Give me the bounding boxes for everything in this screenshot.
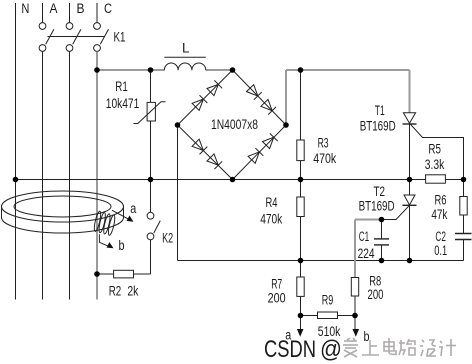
- svg-text:b: b: [119, 238, 125, 253]
- diode D6: [207, 154, 218, 165]
- transformer toroid: [2, 191, 124, 222]
- svg-text:K1: K1: [114, 30, 126, 45]
- resistor R1 varistor: [150, 70, 152, 102]
- diode D4: [261, 99, 272, 110]
- wire C phase (gray): [96, 52, 233, 300]
- diode D8: [263, 137, 274, 148]
- junction dot C line / R2: [94, 271, 100, 277]
- svg-text:1N4007x8: 1N4007x8: [211, 117, 258, 132]
- bridge rectifier 1N4007x8: [178, 70, 233, 125]
- svg-text:N: N: [21, 1, 29, 16]
- svg-text:C1: C1: [359, 229, 370, 244]
- svg-text:2k: 2k: [127, 284, 138, 299]
- svg-text:T2: T2: [374, 184, 386, 199]
- node b arrow: [354, 316, 356, 331]
- node B line: [69, 3, 71, 23]
- svg-text:10k471: 10k471: [106, 96, 140, 111]
- svg-text:BT169D: BT169D: [359, 199, 395, 214]
- junction dot T1 cathode / T2 anode: [407, 177, 413, 183]
- svg-text:200: 200: [268, 291, 286, 306]
- svg-text:470k: 470k: [260, 212, 282, 227]
- resistor R8: [351, 278, 358, 297]
- switch K1: [39, 23, 46, 30]
- junction dot DC+ / R3: [298, 67, 304, 73]
- junction dot C1 on lower bus: [379, 258, 385, 264]
- junction dot bridge AC top vertex: [230, 67, 236, 73]
- K1 mechanical link: [48, 36, 105, 38]
- watermark: [264, 336, 342, 363]
- junction dot R3/R4 node: [298, 177, 304, 183]
- resistor R9: [301, 315, 318, 317]
- thyristor T2: [409, 180, 411, 196]
- svg-text:B: B: [77, 1, 85, 16]
- junction dot R1 bottom / K2: [148, 177, 154, 183]
- svg-text:R7: R7: [271, 276, 282, 291]
- tap a arrow: [112, 210, 129, 219]
- svg-text:b: b: [364, 329, 370, 344]
- diode D5: [192, 139, 203, 150]
- toroid winding: [93, 211, 102, 232]
- junction dot node b: [352, 313, 358, 319]
- resistor R6: [463, 180, 465, 197]
- svg-text:224: 224: [358, 246, 375, 261]
- junction dot T2 gate / C1: [379, 217, 385, 223]
- junction dot bridge DC- left vertex: [175, 122, 181, 128]
- tap b arrow: [99, 234, 109, 246]
- wire T2 gate (gray): [355, 220, 382, 278]
- svg-text:R2: R2: [109, 284, 122, 299]
- inductor L: [164, 63, 206, 70]
- node A line: [42, 3, 44, 23]
- diode D2: [207, 84, 218, 95]
- svg-text:R9: R9: [322, 293, 334, 308]
- junction dot bridge DC+ right vertex: [283, 122, 289, 128]
- node C line: [96, 3, 98, 23]
- wire bus N (y=179.3): [16, 179, 410, 181]
- junction dot T1 gate / R5 / R6: [461, 177, 467, 183]
- svg-text:0.1: 0.1: [434, 243, 447, 258]
- resistor R4: [300, 180, 302, 197]
- resistor R2: [97, 273, 114, 275]
- resistor R3: [300, 70, 302, 140]
- svg-text:a: a: [130, 201, 136, 216]
- capacitor C1: [381, 220, 383, 239]
- svg-text:R4: R4: [266, 195, 278, 210]
- junction dot bridge AC bottom vertex: [230, 177, 236, 183]
- svg-text:47k: 47k: [431, 207, 447, 222]
- node a arrow: [300, 316, 302, 331]
- junction dot node C / R1 branch: [94, 67, 100, 73]
- svg-text:C2: C2: [435, 229, 446, 244]
- junction dot N bus left: [13, 177, 19, 183]
- svg-text:R5: R5: [428, 142, 441, 157]
- svg-text:R1: R1: [115, 79, 128, 94]
- wire DC minus from left vertex: [177, 125, 179, 261]
- svg-text:CSDN: CSDN: [264, 336, 316, 363]
- diode D1: [192, 99, 203, 110]
- junction dot R4 / R7 on lower bus: [298, 258, 304, 264]
- junction dot node a: [298, 313, 304, 319]
- wire DC plus from right vertex (gray): [286, 70, 410, 125]
- svg-text:K2: K2: [162, 231, 173, 246]
- svg-text:@: @: [320, 336, 342, 363]
- svg-text:T1: T1: [375, 103, 385, 118]
- svg-text:R6: R6: [435, 193, 447, 208]
- svg-text:3.3k: 3.3k: [425, 157, 445, 172]
- node N line: [15, 3, 17, 300]
- svg-text:BT169D: BT169D: [360, 119, 396, 134]
- svg-text:200: 200: [368, 287, 384, 302]
- resistor R5: [426, 175, 446, 183]
- junction dot R1 top / L: [148, 67, 154, 73]
- svg-text:A: A: [50, 1, 58, 16]
- switch K2: [150, 180, 152, 213]
- svg-text:C: C: [104, 1, 112, 16]
- diode D3: [247, 85, 258, 96]
- diode D7: [248, 152, 259, 163]
- svg-text:R3: R3: [318, 136, 329, 151]
- junction dot T2 cathode on lower bus: [407, 258, 413, 264]
- resistor R7: [300, 261, 302, 278]
- svg-text:470k: 470k: [313, 151, 336, 166]
- thyristor T1: [403, 113, 415, 123]
- svg-text:L: L: [182, 41, 190, 56]
- capacitor C2: [455, 233, 472, 235]
